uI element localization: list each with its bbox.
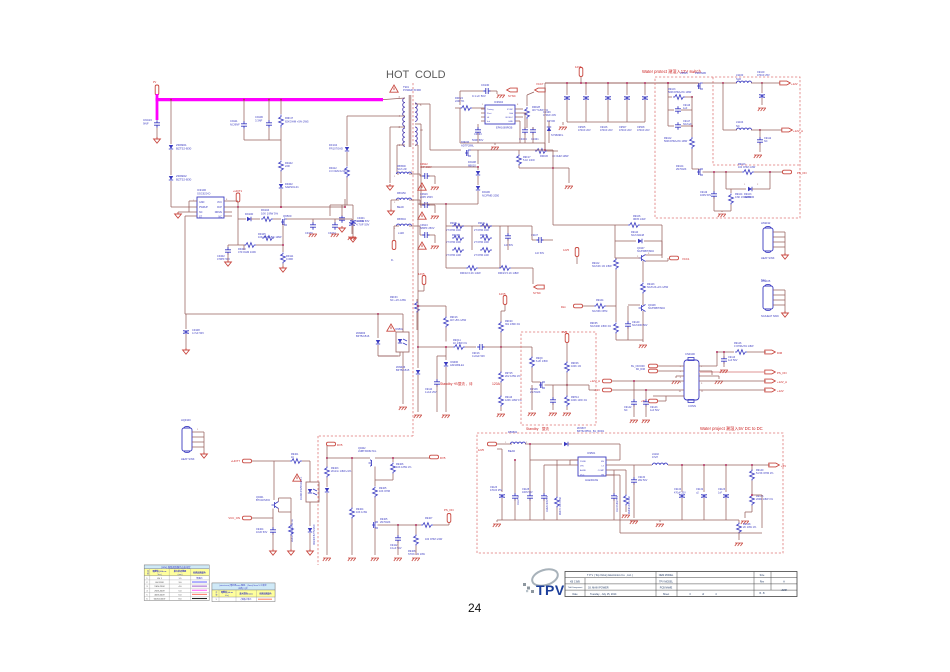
svg-text:100K 10W 1%: 100K 10W 1% (571, 399, 588, 402)
wire (691, 97, 693, 110)
svg-text:+HOT7: +HOT7 (231, 459, 241, 463)
svg-text:Title/Component: Title/Component (568, 586, 583, 589)
svg-text:Timing: Timing (487, 109, 494, 111)
svg-text:24: 24 (468, 601, 482, 615)
svg-text:+12V_A: +12V_A (590, 379, 600, 383)
wire (280, 172, 282, 184)
wire (434, 205, 436, 213)
wire (588, 385, 590, 390)
svg-text:ADTF286L: ADTF286L (461, 143, 475, 147)
pin DIM (574, 304, 583, 308)
wire (434, 235, 436, 243)
title block col line (676, 572, 678, 597)
wire bus to C9111 (243, 100, 245, 122)
svg-text:1nF 50V: 1nF 50V (535, 252, 544, 255)
table1 row line (144, 595, 209, 597)
capacitor C9402 (225, 247, 231, 255)
wire heatsink pin0 (773, 231, 785, 233)
wire array top (446, 225, 500, 227)
svg-text:100K 1%: 100K 1% (571, 365, 582, 368)
svg-text:OEM MODEL: OEM MODEL (659, 574, 674, 577)
capacitor C9107 (536, 237, 544, 243)
diode in opto IC9502 (398, 339, 402, 343)
pin 12V5 m (488, 442, 497, 446)
junction (280, 206, 282, 208)
wire bank bottom (567, 121, 645, 123)
wire (529, 460, 531, 494)
wire (645, 390, 647, 400)
wire lower bus (460, 142, 545, 144)
svg-text:C9133 2N2 50V: C9133 2N2 50V (617, 495, 619, 512)
svg-text:NC +1% 1/8W: NC +1% 1/8W (390, 299, 407, 302)
ground C9912 (431, 187, 439, 190)
junction (716, 351, 718, 353)
svg-text:2N7002K: 2N7002K (676, 168, 687, 171)
wire (330, 204, 347, 206)
ground standby1 (414, 415, 422, 418)
resistor R9405 (373, 487, 378, 498)
wire (227, 253, 229, 260)
wire (769, 172, 771, 189)
wire (580, 77, 582, 83)
wire (390, 200, 392, 209)
resistor R9F23 (499, 266, 511, 271)
wire pin VCC (224, 200, 238, 202)
wire (738, 534, 740, 541)
w (416, 299, 418, 302)
wire HQ9100 pin2 (192, 441, 204, 443)
svg-text:1: 1 (482, 104, 484, 106)
svg-text:100 OHM 1.8W: 100 OHM 1.8W (738, 166, 756, 169)
ground C9402 (225, 260, 232, 266)
svg-text:+5V: +5V (641, 399, 646, 403)
ground Q9108 (639, 345, 647, 348)
wire rail to bank (471, 149, 546, 151)
wire cap2 bottom (607, 100, 609, 122)
capacitor C9429 (541, 493, 547, 501)
capacitor C9110 (434, 379, 440, 387)
svg-text:VCC7: VCC7 (536, 82, 544, 86)
svg-text:12V5: 12V5 (563, 249, 569, 252)
svg-text:C9127 u2: C9127 u2 (518, 494, 520, 505)
svg-text:R-: R- (391, 259, 394, 262)
svg-text:2K2 1/8W 1%: 2K2 1/8W 1% (505, 375, 521, 378)
wire (228, 244, 244, 246)
wire HQ9100 pin1 (192, 436, 204, 438)
w (290, 536, 292, 550)
wire cap3 top (626, 83, 628, 95)
wire fb tap (752, 494, 762, 496)
junction (344, 206, 346, 208)
pin VCC_ON (243, 516, 252, 520)
resistor R9404 (350, 508, 355, 519)
svg-text:470UF 20V: 470UF 20V (619, 129, 632, 132)
pin PS_ON g (447, 514, 451, 523)
wire heatsink pin0 (773, 289, 785, 291)
svg-text:470uF 20V: 470uF 20V (674, 491, 686, 494)
wire (496, 520, 498, 522)
wire (751, 481, 753, 496)
ground CN right (715, 381, 723, 384)
wire (418, 290, 424, 292)
capacitor C9507 (605, 96, 611, 99)
wire (668, 96, 672, 98)
wire (569, 460, 571, 465)
wire opto to R9F16 (418, 305, 446, 307)
diode D9Y06 (547, 127, 551, 131)
junction (392, 457, 394, 459)
wire (725, 172, 727, 189)
ground R9408 (412, 558, 420, 561)
ground pin2 (387, 184, 394, 190)
wire (552, 385, 554, 398)
wire (227, 245, 229, 248)
svg-text:PGND: PGND (580, 461, 587, 463)
junction (415, 524, 417, 526)
resistor R9F20 (499, 322, 504, 333)
wire (497, 443, 512, 445)
svg-text:12V5: 12V5 (418, 272, 425, 276)
table1 header yellow (144, 569, 209, 576)
junction (397, 524, 399, 526)
resistor R9136 (750, 495, 755, 506)
wire (532, 133, 534, 143)
w (399, 352, 401, 356)
junction (280, 206, 282, 208)
w (279, 497, 292, 499)
w (445, 328, 447, 342)
wire (465, 346, 476, 348)
svg-text:D9Y06: D9Y06 (547, 119, 555, 123)
dashed box 5V DC-DC (477, 433, 783, 553)
w (445, 310, 447, 317)
svg-text:+5V: +5V (781, 464, 786, 468)
svg-text:VCC1: VCC1 (682, 257, 690, 261)
svg-text:NC/1.2R: NC/1.2R (397, 168, 407, 171)
svg-text:10K 1/8W 1%: 10K 1/8W 1% (396, 466, 412, 469)
junction (633, 380, 635, 382)
ground D9405 (371, 558, 379, 561)
dashed box water protect (655, 77, 800, 218)
svg-text:1: 1 (744, 184, 746, 186)
wire (576, 257, 578, 264)
title block row line (565, 577, 797, 579)
svg-text:R9407: R9407 (425, 517, 433, 520)
svg-text:SARS01-01: SARS01-01 (285, 185, 299, 189)
svg-text:PCB NAME: PCB NAME (660, 587, 673, 590)
ground opto (399, 407, 407, 410)
wire (351, 458, 353, 508)
resistor R9412 (345, 167, 350, 178)
ground R9111 (280, 266, 287, 272)
wire pin DRIVE2 (224, 211, 232, 213)
wire (676, 375, 684, 377)
wire (477, 150, 479, 164)
svg-text:of: of (702, 593, 704, 596)
ground D9S06 (528, 413, 536, 416)
svg-text:PMOS6B: PMOS6B (695, 71, 706, 75)
junction (722, 82, 724, 84)
junction (580, 82, 582, 84)
ground comp (622, 515, 630, 518)
svg-text:BZT52-B15: BZT52-B15 (396, 368, 410, 372)
pin 12V5 bank (579, 68, 583, 77)
resistor R9K36 (535, 149, 547, 154)
capacitor C9509 (642, 96, 648, 99)
svg-text:HEAT SINK: HEAT SINK (761, 256, 775, 260)
junction (529, 443, 531, 445)
capacitor C9401 (350, 220, 356, 223)
resistor R9126 (735, 350, 747, 355)
wire (273, 218, 281, 220)
wire (477, 176, 479, 185)
wire heatsink pin2 (773, 241, 785, 243)
wire (351, 219, 353, 221)
wire Q9500 source (282, 224, 284, 252)
svg-text:IC9502: IC9502 (395, 328, 404, 331)
junction (761, 82, 763, 84)
mosfet D9405 (372, 522, 378, 528)
wire (511, 267, 533, 269)
table2 color sample (258, 598, 272, 600)
wire (745, 511, 752, 513)
svg-text:1uF: 1uF (683, 107, 688, 110)
wire (583, 305, 594, 307)
svg-text:LMBT3906LT1G: LMBT3906LT1G (358, 450, 376, 453)
transformer T901 primary winding (403, 98, 405, 146)
wire (377, 314, 379, 338)
junction (626, 82, 628, 84)
wire (760, 129, 782, 131)
wire (567, 384, 589, 386)
resistor R9F06 (565, 362, 570, 373)
w (615, 257, 640, 259)
capacitor C9126 (499, 494, 505, 497)
capacitor C9119 (711, 191, 717, 199)
wire (501, 498, 503, 520)
pin +5V in (649, 399, 658, 403)
w (378, 524, 399, 526)
svg-text:03. MAIN POWER: 03. MAIN POWER (588, 587, 609, 590)
wire (334, 219, 336, 223)
title block col line (584, 578, 586, 597)
wire (759, 143, 761, 152)
svg-text:12V5: 12V5 (575, 65, 582, 69)
svg-text:A: A (783, 579, 785, 583)
capacitor C9912 (422, 173, 430, 179)
table1 header cyan (144, 565, 209, 569)
svg-text:EPA1669RGB: EPA1669RGB (496, 126, 513, 130)
svg-text:HI: HI (487, 117, 490, 119)
capacitor C9400 (339, 215, 345, 223)
svg-text:1uF: 1uF (718, 491, 723, 494)
title block row line (565, 583, 797, 585)
wire (500, 333, 502, 348)
wire C9123 (725, 465, 727, 492)
wire (552, 403, 554, 410)
wire standby left vert (417, 291, 419, 368)
wire sec rail (430, 149, 461, 151)
svg-text:6.2K 1/8W: 6.2K 1/8W (536, 360, 548, 363)
wire (282, 264, 284, 267)
wire pin ST (185, 215, 197, 217)
inductor L9100 (736, 81, 751, 83)
ground IC9936 (442, 415, 450, 418)
svg-text:SY9609FL: SY9609FL (551, 133, 564, 137)
wire (188, 201, 190, 212)
wire feedback bus y314 (185, 313, 403, 315)
svg-text:PS_ON: PS_ON (797, 171, 806, 175)
junction (725, 171, 727, 173)
table1 row line (144, 575, 209, 577)
svg-text:VCC: VCC (217, 201, 222, 204)
capacitor C9132 (701, 494, 707, 497)
ground PS_ON (718, 214, 726, 217)
ground IC9100 (175, 212, 182, 218)
capacitor C9123 (723, 494, 729, 497)
svg-text:IC9904: IC9904 (494, 100, 503, 104)
title block row line (565, 589, 797, 591)
svg-text:0R05 1/4W: 0R05 1/4W (633, 218, 646, 221)
junction (417, 305, 419, 307)
wire (691, 126, 693, 137)
ground C9112 (754, 155, 762, 158)
svg-text:5.1K 1/4W: 5.1K 1/4W (523, 159, 535, 162)
wire (544, 464, 570, 466)
mosfet Q9500 (281, 219, 287, 225)
wire ground bus 5V (502, 519, 726, 521)
warning triangle C9916 (418, 212, 426, 219)
wire (634, 464, 652, 466)
ground R9116 (497, 414, 505, 417)
svg-text:250V-400V: 250V-400V (154, 590, 165, 592)
resistor R9F16 (444, 317, 449, 328)
wire standby bus (418, 346, 453, 348)
wire rail down (552, 150, 554, 225)
resistor R9Q31 array (480, 224, 492, 229)
svg-text:51.5K OHM 1%: 51.5K OHM 1% (756, 472, 774, 475)
svg-text:8: 8 (517, 104, 519, 106)
mosfet D9104 (697, 169, 703, 175)
ground R9H14 (563, 413, 571, 416)
resistor R9F65 (614, 323, 619, 334)
wire (691, 110, 693, 126)
svg-text:470 OHM 1/4W: 470 OHM 1/4W (238, 250, 256, 254)
capacitor C9127 (512, 493, 518, 501)
resistor R9T15 (499, 372, 504, 383)
wire heatsink pin2 (773, 299, 785, 301)
connector CN9100 (684, 360, 699, 400)
wire pin NC (189, 211, 197, 213)
ground 5V mid (656, 524, 664, 527)
wire (703, 82, 724, 84)
mosfet Q9505 (697, 83, 703, 89)
svg-text:R9446 20K 1/8W: R9446 20K 1/8W (629, 496, 631, 514)
svg-text:470UF 20V: 470UF 20V (637, 129, 650, 132)
wire sec rail2 (421, 166, 478, 168)
resistor R9Q33 array (480, 236, 492, 241)
wire heatsink pin3 (773, 246, 785, 248)
wire (606, 474, 620, 476)
wire (681, 109, 692, 111)
svg-text:2: 2 (757, 184, 759, 186)
w (628, 304, 640, 306)
w (272, 533, 274, 549)
wire (744, 512, 746, 518)
wire L9104 feed (722, 83, 724, 130)
svg-text:0.36R: 0.36R (286, 257, 293, 261)
capacitor C9116 (675, 106, 681, 114)
svg-text:Date: Date (572, 593, 578, 596)
wire (566, 373, 568, 386)
wire (562, 122, 564, 125)
wire (429, 175, 435, 177)
wire +HOT1 down (237, 202, 239, 207)
ground C9S40 (549, 413, 557, 416)
wire (725, 498, 727, 520)
svg-text:2T OHM 1/4R: 2T OHM 1/4R (474, 241, 489, 244)
resistor R9106 (628, 223, 640, 228)
w (185, 314, 187, 329)
capacitor C9101 (349, 222, 355, 225)
wire (761, 83, 763, 93)
wire (665, 396, 667, 401)
wire (500, 311, 502, 322)
w (278, 498, 280, 502)
svg-text:NC/1N4148: NC/1N4148 (631, 234, 645, 237)
w (531, 385, 533, 410)
svg-text:NC/FME-2050: NC/FME-2050 (482, 193, 500, 197)
svg-text:2R2 50V: 2R2 50V (638, 479, 648, 482)
wire sec mid (415, 123, 421, 125)
wire (423, 285, 425, 291)
resistor R9104b (729, 194, 734, 205)
wire C9134 (681, 465, 683, 492)
svg-text:Standby: Standby (526, 427, 539, 431)
wire (548, 121, 550, 127)
svg-text:u2: u2 (696, 491, 699, 494)
svg-text:PV: PV (153, 81, 157, 84)
capacitor C9104 (332, 222, 338, 230)
wire (409, 225, 420, 227)
wire (699, 389, 766, 391)
junction (751, 464, 753, 466)
wire (543, 499, 545, 520)
diode D9100 (247, 217, 251, 221)
ferrite bead FB9502 (510, 442, 525, 444)
wire (237, 219, 239, 245)
wire (445, 306, 447, 310)
junction (607, 82, 609, 84)
svg-text:D9100: D9100 (245, 212, 254, 216)
junction (477, 166, 479, 168)
svg-text:361 1/8W 1%: 361 1/8W 1% (505, 323, 521, 326)
table wire legend 2 bg (212, 583, 275, 602)
table1 color sample row3 (192, 589, 207, 591)
svg-text:R9164: R9164 (596, 299, 604, 302)
wire (667, 258, 669, 261)
title block outer (565, 572, 797, 597)
junction (351, 457, 353, 459)
ground C9104 (331, 234, 339, 237)
wire bus to ZD9901 (170, 100, 172, 144)
svg-text:NC/10K 1% 1/8W: NC/10K 1% 1/8W (592, 265, 612, 268)
junction (243, 99, 245, 101)
svg-text:R9Q3L: R9Q3L (450, 222, 458, 225)
capacitor C9128 (527, 493, 533, 501)
svg-text:POWER XFMR: POWER XFMR (403, 88, 421, 92)
junction (691, 125, 693, 127)
